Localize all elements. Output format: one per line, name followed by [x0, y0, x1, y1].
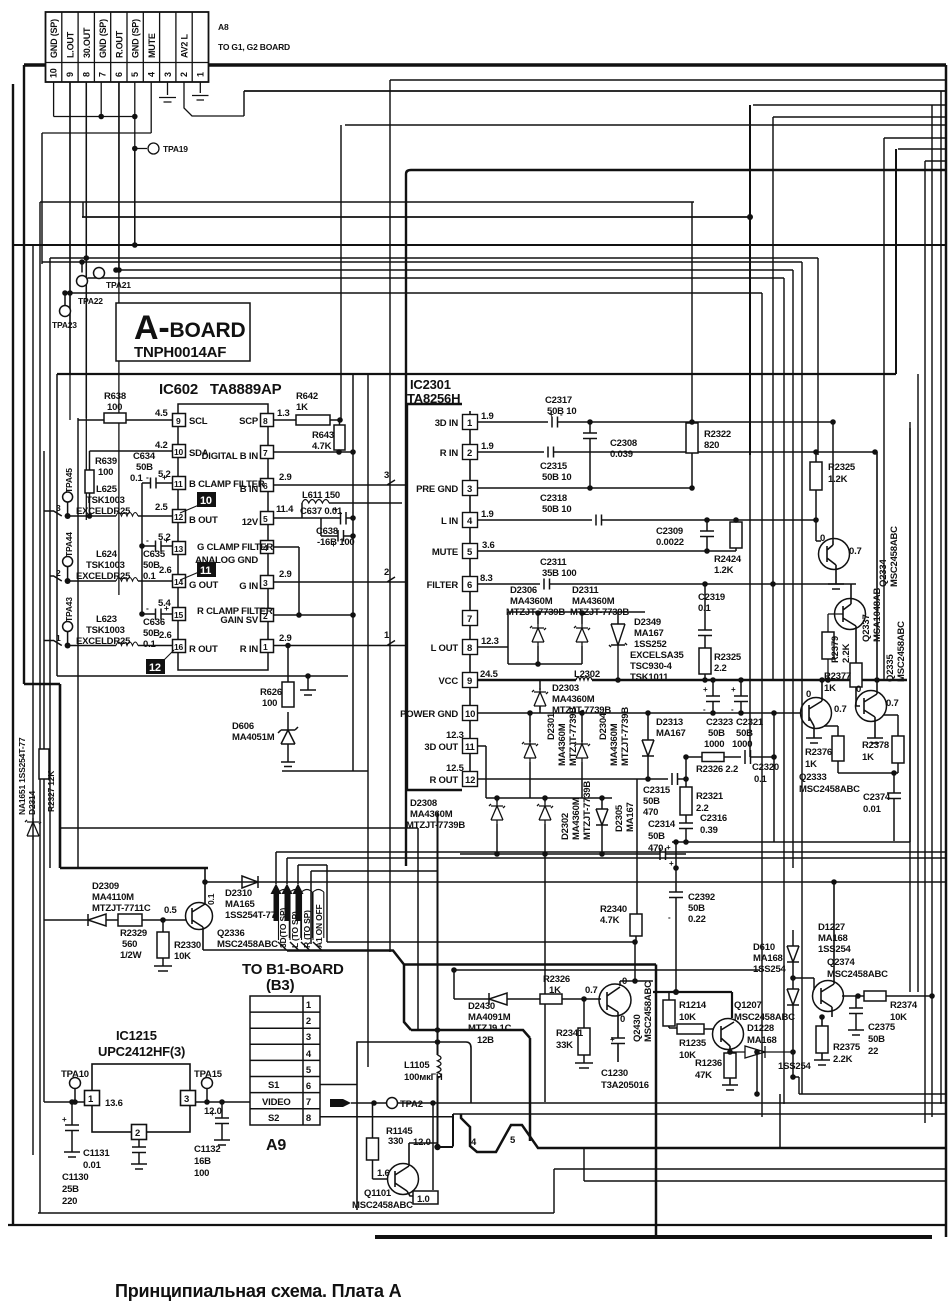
svg-text:2: 2 [467, 448, 472, 459]
svg-text:1.0: 1.0 [417, 1194, 430, 1205]
svg-text:SCL: SCL [189, 416, 208, 427]
svg-text:C2374: C2374 [863, 792, 891, 803]
svg-text:R IN: R IN [240, 644, 259, 655]
svg-text:10K: 10K [174, 951, 191, 962]
svg-text:11.4: 11.4 [276, 504, 294, 515]
svg-text:12.0: 12.0 [413, 1137, 431, 1148]
svg-text:R IN: R IN [440, 448, 459, 459]
svg-text:2.6: 2.6 [159, 565, 172, 576]
svg-text:R OUT: R OUT [429, 775, 458, 786]
svg-text:C2317: C2317 [545, 395, 572, 406]
svg-text:D610: D610 [753, 942, 775, 953]
svg-text:POWER GND: POWER GND [400, 709, 458, 720]
svg-text:TPA2: TPA2 [400, 1099, 423, 1110]
svg-text:TPA10: TPA10 [61, 1069, 89, 1080]
svg-text:R OUT: R OUT [189, 644, 218, 655]
svg-text:MTZJT-7739B: MTZJT-7739B [406, 820, 465, 831]
svg-text:TPA44: TPA44 [64, 532, 74, 557]
svg-text:50B: 50B [708, 728, 725, 739]
svg-text:TPA15: TPA15 [194, 1069, 223, 1080]
svg-text:24.5: 24.5 [480, 669, 499, 680]
svg-text:470: 470 [643, 807, 658, 818]
svg-text:R1214: R1214 [679, 1000, 707, 1011]
svg-text:R2322: R2322 [704, 429, 731, 440]
svg-text:2.9: 2.9 [279, 633, 292, 644]
svg-text:Q2430: Q2430 [632, 1014, 643, 1042]
svg-text:2.5: 2.5 [155, 502, 169, 513]
svg-text:35B 100: 35B 100 [542, 568, 577, 579]
svg-text:50B: 50B [136, 462, 153, 473]
svg-text:D2310: D2310 [225, 888, 252, 899]
svg-text:D2301: D2301 [546, 712, 557, 740]
svg-text:C2315: C2315 [540, 461, 568, 472]
svg-text:VCC: VCC [439, 676, 459, 687]
svg-text:9: 9 [65, 72, 75, 77]
svg-text:Q2335: Q2335 [885, 654, 896, 682]
svg-text:R2424: R2424 [714, 554, 742, 565]
svg-text:C2314: C2314 [648, 819, 676, 830]
svg-text:2.2K: 2.2K [833, 1054, 853, 1065]
svg-text:R2326 2.2: R2326 2.2 [696, 764, 738, 775]
svg-text:TO B1-BOARD: TO B1-BOARD [242, 961, 344, 978]
svg-text:15: 15 [174, 610, 184, 620]
svg-text:C2309: C2309 [656, 526, 683, 537]
svg-text:33K: 33K [556, 1040, 573, 1051]
svg-text:R626: R626 [260, 687, 282, 698]
svg-text:C2323: C2323 [706, 717, 733, 728]
svg-text:L624: L624 [96, 549, 118, 560]
svg-text:Q1101: Q1101 [364, 1188, 392, 1199]
svg-text:2.6: 2.6 [159, 630, 172, 641]
svg-text:GND (SP): GND (SP) [98, 19, 108, 58]
svg-text:100: 100 [98, 467, 113, 478]
svg-text:D2349: D2349 [634, 617, 661, 628]
svg-text:0.7: 0.7 [849, 546, 862, 557]
svg-text:1.9: 1.9 [481, 411, 494, 422]
svg-text:8: 8 [467, 643, 472, 654]
svg-text:560: 560 [122, 939, 137, 950]
svg-text:EXCELDR25: EXCELDR25 [76, 571, 131, 582]
svg-text:1.2K: 1.2K [828, 474, 848, 485]
svg-text:TSK1003: TSK1003 [86, 495, 125, 506]
svg-text:0.0022: 0.0022 [656, 537, 684, 548]
svg-text:D2304: D2304 [598, 712, 609, 740]
svg-text:1.9: 1.9 [481, 441, 494, 452]
svg-text:0.1: 0.1 [130, 473, 144, 484]
svg-text:-: - [146, 472, 149, 482]
svg-text:100мкГН: 100мкГН [404, 1072, 443, 1083]
svg-text:MA4360M: MA4360M [557, 723, 568, 766]
svg-text:R1235: R1235 [679, 1038, 707, 1049]
svg-text:MA167: MA167 [625, 802, 636, 832]
svg-text:0.5: 0.5 [164, 905, 178, 916]
svg-text:EXCELDR25: EXCELDR25 [76, 636, 131, 647]
svg-text:IC2301: IC2301 [410, 377, 451, 392]
svg-text:12: 12 [149, 662, 161, 674]
svg-text:R643: R643 [312, 430, 334, 441]
svg-text:D2313: D2313 [656, 717, 683, 728]
svg-text:7: 7 [306, 1097, 311, 1108]
svg-text:13: 13 [174, 544, 184, 554]
svg-text:7: 7 [467, 614, 472, 625]
svg-text:11: 11 [174, 479, 183, 489]
svg-text:L2302: L2302 [574, 669, 600, 680]
svg-text:8: 8 [306, 1113, 311, 1124]
svg-text:22: 22 [868, 1046, 878, 1057]
svg-text:0.01: 0.01 [83, 1160, 102, 1171]
svg-text:0: 0 [806, 689, 811, 700]
svg-text:GND (SP): GND (SP) [131, 19, 141, 58]
svg-text:C638: C638 [316, 526, 338, 537]
svg-text:4.7K: 4.7K [600, 915, 620, 926]
svg-text:1K: 1K [549, 985, 561, 996]
svg-text:R.OUT: R.OUT [114, 30, 124, 58]
svg-text:9: 9 [176, 416, 181, 426]
svg-text:L611 150: L611 150 [302, 490, 340, 501]
svg-text:3.6: 3.6 [482, 540, 495, 551]
svg-text:GAIN SV: GAIN SV [220, 615, 259, 626]
svg-text:T3A205016: T3A205016 [601, 1080, 649, 1091]
svg-text:1SS254: 1SS254 [753, 964, 787, 975]
svg-text:7: 7 [263, 448, 268, 458]
svg-text:+: + [610, 1035, 615, 1044]
svg-text:EXCELDR25: EXCELDR25 [76, 506, 131, 517]
svg-text:8.3: 8.3 [480, 573, 493, 584]
svg-text:C2319: C2319 [698, 592, 725, 603]
svg-text:TPA19: TPA19 [163, 144, 188, 154]
svg-text:MA168: MA168 [753, 953, 783, 964]
svg-text:R638: R638 [104, 391, 126, 402]
svg-text:TSK1003: TSK1003 [86, 560, 125, 571]
svg-text:0.01: 0.01 [863, 804, 882, 815]
svg-text:UPC2412HF(3): UPC2412HF(3) [98, 1044, 185, 1059]
svg-text:2: 2 [179, 72, 189, 77]
svg-text:C1132: C1132 [194, 1144, 220, 1155]
svg-text:0.39: 0.39 [700, 825, 718, 836]
svg-text:+: + [62, 1115, 67, 1124]
svg-text:11: 11 [200, 565, 211, 577]
svg-text:C2320: C2320 [752, 762, 779, 773]
svg-text:TNPH0014AF: TNPH0014AF [134, 344, 226, 361]
svg-text:100: 100 [194, 1168, 209, 1179]
svg-text:100: 100 [107, 402, 122, 413]
svg-text:G CLAMP FILTER: G CLAMP FILTER [197, 542, 273, 553]
svg-text:12B: 12B [477, 1035, 494, 1046]
svg-text:G IN: G IN [239, 581, 258, 592]
svg-text:5: 5 [130, 72, 140, 77]
svg-text:MSC2458ABC: MSC2458ABC [352, 1200, 413, 1211]
svg-text:9: 9 [467, 676, 472, 687]
svg-text:MA4360M: MA4360M [571, 797, 582, 840]
svg-text:+: + [210, 1109, 215, 1118]
svg-text:16B: 16B [194, 1156, 211, 1167]
svg-text:Q2337: Q2337 [861, 614, 872, 642]
svg-text:0.1: 0.1 [143, 639, 157, 650]
svg-text:0.1: 0.1 [698, 603, 712, 614]
svg-text:C635: C635 [143, 549, 166, 560]
svg-text:A9: A9 [266, 1137, 286, 1154]
svg-text:D606: D606 [232, 721, 254, 732]
svg-text:MA4360M: MA4360M [552, 694, 595, 705]
svg-text:10K: 10K [679, 1050, 696, 1061]
svg-text:12: 12 [465, 775, 475, 786]
svg-text:ANALOG GND: ANALOG GND [195, 555, 258, 566]
svg-text:47K: 47K [695, 1070, 712, 1081]
svg-text:C634: C634 [133, 451, 156, 462]
svg-text:1SS254: 1SS254 [818, 944, 852, 955]
svg-text:R639: R639 [95, 456, 117, 467]
svg-text:C2308: C2308 [610, 438, 637, 449]
svg-text:AV2 L: AV2 L [180, 33, 190, 58]
svg-text:220: 220 [62, 1196, 77, 1207]
svg-text:MTZJ9.1C: MTZJ9.1C [468, 1023, 512, 1034]
svg-text:R2326: R2326 [543, 974, 570, 985]
svg-text:C1130: C1130 [62, 1172, 88, 1183]
svg-text:MA4360M: MA4360M [609, 723, 620, 766]
svg-text:4.2: 4.2 [155, 440, 168, 451]
svg-text:Q2374: Q2374 [827, 957, 855, 968]
svg-text:R1236: R1236 [695, 1058, 722, 1069]
svg-text:L625: L625 [96, 484, 118, 495]
svg-text:1SS252: 1SS252 [634, 639, 667, 650]
svg-text:R2341: R2341 [556, 1028, 584, 1039]
svg-text:MA168: MA168 [747, 1035, 777, 1046]
svg-text:R2325: R2325 [714, 652, 742, 663]
svg-text:MSC2458ABC: MSC2458ABC [217, 939, 278, 950]
svg-text:D2305: D2305 [614, 804, 625, 832]
svg-text:50B: 50B [643, 796, 660, 807]
svg-text:R2377: R2377 [824, 671, 851, 682]
svg-text:0: 0 [620, 1014, 625, 1025]
svg-text:12V: 12V [242, 517, 259, 528]
svg-text:D2311: D2311 [572, 585, 599, 596]
svg-text:TSK1003: TSK1003 [86, 625, 125, 636]
svg-text:B OUT: B OUT [189, 515, 218, 526]
svg-text:R2325: R2325 [828, 462, 856, 473]
svg-text:MSC2458ABC: MSC2458ABC [734, 1012, 795, 1023]
svg-text:D2309: D2309 [92, 881, 119, 892]
svg-text:A1 ON OFF: A1 ON OFF [314, 904, 324, 948]
svg-text:D2302: D2302 [560, 813, 571, 840]
svg-text:L1105: L1105 [404, 1060, 430, 1071]
svg-text:C2318: C2318 [540, 493, 567, 504]
svg-text:MSC2458ABC: MSC2458ABC [896, 621, 907, 682]
svg-text:C636: C636 [143, 617, 165, 628]
svg-text:0.7: 0.7 [585, 985, 598, 996]
svg-text:R2378: R2378 [862, 740, 889, 751]
svg-text:MSC2458ABC: MSC2458ABC [889, 526, 900, 587]
svg-text:+: + [164, 535, 169, 545]
svg-text:1/2W: 1/2W [120, 950, 142, 961]
svg-text:10: 10 [200, 495, 212, 507]
svg-text:2.2K: 2.2K [841, 643, 852, 663]
svg-text:0.1: 0.1 [754, 774, 768, 785]
svg-text:12.5: 12.5 [446, 763, 465, 774]
svg-text:2: 2 [384, 567, 389, 578]
svg-text:4.7K: 4.7K [312, 441, 332, 452]
svg-text:Q1207: Q1207 [734, 1000, 762, 1011]
svg-text:Принципиальная схема. Плата А: Принципиальная схема. Плата А [115, 1281, 402, 1301]
svg-text:MSC2458ABC: MSC2458ABC [643, 981, 654, 1042]
svg-text:+: + [162, 472, 167, 482]
svg-text:R2330: R2330 [174, 940, 201, 951]
svg-text:0.1: 0.1 [206, 893, 216, 905]
svg-text:8: 8 [81, 72, 91, 77]
svg-text:2.9: 2.9 [279, 569, 292, 580]
svg-text:L623: L623 [96, 614, 117, 625]
svg-text:1K: 1K [296, 402, 308, 413]
svg-text:3D(TO SP): 3D(TO SP) [278, 908, 288, 948]
svg-text:L.OUT: L.OUT [66, 31, 76, 58]
svg-text:TSK1011: TSK1011 [630, 672, 669, 683]
svg-text:0: 0 [622, 976, 627, 987]
svg-text:R (TO SP): R (TO SP) [302, 910, 312, 948]
svg-text:G OUT: G OUT [189, 580, 218, 591]
svg-text:MA167: MA167 [634, 628, 664, 639]
svg-text:1: 1 [56, 633, 61, 643]
svg-text:6: 6 [306, 1081, 311, 1092]
svg-text:50B: 50B [143, 560, 160, 571]
svg-text:R2329: R2329 [120, 928, 147, 939]
svg-text:6: 6 [467, 580, 472, 591]
svg-text:6: 6 [114, 72, 124, 77]
svg-text:+: + [549, 410, 554, 419]
svg-text:7: 7 [98, 72, 108, 77]
svg-text:16: 16 [174, 642, 184, 652]
svg-text:TO G1, G2 BOARD: TO G1, G2 BOARD [218, 42, 290, 52]
svg-text:MTZJT-7711C: MTZJT-7711C [92, 903, 151, 914]
svg-text:MA4091M: MA4091M [468, 1012, 511, 1023]
svg-text:MTZJT-7739B: MTZJT-7739B [570, 607, 629, 618]
svg-text:C2392: C2392 [688, 892, 715, 903]
svg-text:L (TO SP): L (TO SP) [290, 911, 300, 948]
svg-text:TPA45: TPA45 [64, 468, 74, 493]
svg-text:MA4360M: MA4360M [510, 596, 553, 607]
svg-text:0: 0 [856, 684, 861, 695]
svg-text:3: 3 [467, 484, 472, 495]
svg-text:3: 3 [306, 1032, 311, 1043]
svg-text:Q2333: Q2333 [799, 772, 827, 783]
svg-text:50B: 50B [688, 903, 705, 914]
svg-text:S2: S2 [268, 1113, 279, 1124]
svg-text:2: 2 [306, 1016, 311, 1027]
svg-text:MUTE: MUTE [432, 547, 458, 558]
svg-text:MA167: MA167 [656, 728, 686, 739]
svg-text:MTZJT-7739B: MTZJT-7739B [568, 707, 579, 766]
svg-text:4.5: 4.5 [155, 408, 169, 419]
svg-text:50B: 50B [868, 1034, 885, 1045]
svg-text:1SS254T-77: 1SS254T-77 [225, 910, 276, 921]
svg-text:MA165: MA165 [225, 899, 256, 910]
svg-text:0.7: 0.7 [834, 704, 847, 715]
svg-text:-: - [146, 535, 149, 545]
svg-text:10: 10 [465, 709, 475, 720]
svg-text:R2374: R2374 [890, 1000, 918, 1011]
svg-text:TPA23: TPA23 [52, 320, 77, 330]
svg-text:0.7: 0.7 [886, 698, 899, 709]
svg-text:MSC2458ABC: MSC2458ABC [827, 969, 888, 980]
svg-text:R2376: R2376 [805, 747, 832, 758]
svg-text:TA8256H: TA8256H [407, 391, 460, 406]
svg-text:0.039: 0.039 [610, 449, 633, 460]
svg-text:MA4360M: MA4360M [410, 809, 453, 820]
svg-text:Q2336: Q2336 [217, 928, 245, 939]
svg-text:MA168: MA168 [818, 933, 848, 944]
svg-text:1K: 1K [805, 759, 817, 770]
svg-text:C2311: C2311 [540, 557, 567, 568]
svg-text:3D IN: 3D IN [435, 418, 459, 429]
svg-text:R2379: R2379 [830, 636, 841, 663]
svg-text:12.3: 12.3 [446, 730, 464, 741]
svg-text:MA4110M: MA4110M [92, 892, 134, 903]
svg-text:D2430: D2430 [468, 1001, 495, 1012]
svg-text:Q2334: Q2334 [878, 559, 889, 587]
svg-text:L IN: L IN [441, 516, 458, 527]
svg-text:1: 1 [263, 642, 268, 652]
svg-text:50B 10: 50B 10 [542, 504, 571, 515]
svg-text:3: 3 [263, 578, 268, 588]
svg-text:MTZJT-7739B: MTZJT-7739B [620, 707, 631, 766]
svg-text:(B3): (B3) [266, 977, 295, 994]
svg-text:D1228: D1228 [747, 1023, 774, 1034]
svg-text:0: 0 [820, 533, 825, 544]
svg-text:C2375: C2375 [868, 1022, 896, 1033]
svg-text:10: 10 [174, 447, 184, 457]
svg-text:SCP: SCP [239, 416, 259, 427]
svg-text:3D OUT: 3D OUT [424, 742, 458, 753]
svg-text:TPA21: TPA21 [106, 280, 131, 290]
svg-text:1000: 1000 [704, 739, 724, 750]
svg-text:D1227: D1227 [818, 922, 845, 933]
svg-text:C1131: C1131 [83, 1148, 110, 1159]
svg-text:MSA1048AB: MSA1048AB [872, 587, 883, 642]
svg-text:MSC2458ABC: MSC2458ABC [799, 784, 860, 795]
svg-text:B IN: B IN [240, 484, 259, 495]
svg-text:GND (SP): GND (SP) [49, 19, 59, 58]
svg-text:4: 4 [147, 72, 157, 77]
svg-text:A8: A8 [218, 22, 229, 32]
svg-text:25B: 25B [62, 1184, 79, 1195]
svg-text:1.3: 1.3 [277, 408, 290, 419]
svg-text:5: 5 [263, 514, 268, 524]
svg-text:2.9: 2.9 [279, 472, 292, 483]
svg-text:VIDEO: VIDEO [262, 1097, 291, 1108]
svg-text:MA4051M: MA4051M [232, 732, 275, 743]
svg-text:C1230: C1230 [601, 1068, 628, 1079]
svg-text:0.22: 0.22 [688, 914, 706, 925]
svg-text:1.2K: 1.2K [714, 565, 734, 576]
svg-text:EXCELSA35: EXCELSA35 [630, 650, 685, 661]
svg-text:1.6: 1.6 [377, 1168, 390, 1179]
svg-text:11: 11 [465, 742, 476, 753]
svg-text:IC1215: IC1215 [116, 1028, 157, 1043]
svg-text:TPA43: TPA43 [64, 597, 74, 622]
svg-text:1K: 1K [824, 683, 836, 694]
svg-text:R2321: R2321 [696, 791, 724, 802]
svg-text:8: 8 [263, 416, 268, 426]
svg-text:R2340: R2340 [600, 904, 627, 915]
svg-text:12: 12 [174, 512, 184, 522]
svg-text:330: 330 [388, 1136, 403, 1147]
svg-text:1.9: 1.9 [481, 509, 494, 520]
svg-text:+: + [333, 504, 338, 514]
svg-text:100: 100 [262, 698, 277, 709]
svg-text:50B: 50B [648, 831, 665, 842]
svg-text:10: 10 [49, 68, 59, 78]
svg-text:R2375: R2375 [833, 1042, 861, 1053]
svg-text:50B 10: 50B 10 [542, 472, 571, 483]
svg-text:1K: 1K [862, 752, 874, 763]
